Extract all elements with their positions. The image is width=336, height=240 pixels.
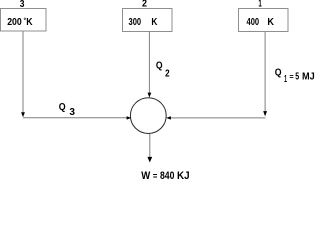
svg-text:300: 300 xyxy=(129,17,142,28)
svg-text:KJ: KJ xyxy=(177,170,190,182)
svg-text:5: 5 xyxy=(295,72,299,83)
svg-text:=: = xyxy=(289,72,293,82)
svg-text:3: 3 xyxy=(20,0,25,10)
svg-text:K: K xyxy=(26,17,33,28)
svg-text:K: K xyxy=(151,17,158,28)
svg-text:1: 1 xyxy=(258,0,262,10)
svg-text:840: 840 xyxy=(160,170,174,182)
svg-text:1: 1 xyxy=(284,74,287,85)
svg-text:Q: Q xyxy=(156,61,163,72)
svg-text:2: 2 xyxy=(165,69,170,80)
svg-text:Q: Q xyxy=(59,102,66,113)
svg-text:2: 2 xyxy=(142,0,147,10)
svg-text:=: = xyxy=(153,171,158,181)
svg-text:Q: Q xyxy=(275,68,282,79)
svg-text:200: 200 xyxy=(7,17,22,28)
svg-text:400: 400 xyxy=(247,17,260,28)
svg-text:W: W xyxy=(141,170,151,182)
svg-text:3: 3 xyxy=(69,107,75,118)
svg-text:MJ: MJ xyxy=(302,72,315,83)
svg-text:K: K xyxy=(267,17,274,28)
